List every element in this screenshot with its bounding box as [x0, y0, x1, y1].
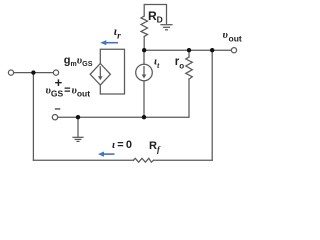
resistor RD — [141, 16, 148, 37]
annotation arrow ir (blue) — [100, 40, 118, 45]
arrow inside it — [142, 67, 147, 79]
svg-text:υGS = υout: υGS = υout — [46, 85, 91, 99]
terminal vout — [231, 48, 236, 53]
current source it — [136, 64, 153, 81]
svg-text:ι = 0: ι = 0 — [112, 139, 132, 151]
svg-text:out: out — [229, 34, 242, 44]
wire: ro bottom to mid wire corner — [188, 79, 190, 117]
svg-text:ro: ro — [175, 56, 184, 71]
wire: top bus — [144, 49, 231, 51]
resistor Rf — [134, 158, 154, 162]
wire: bottom feedback wire left of Rf — [33, 159, 133, 161]
terminal gate — [53, 70, 58, 75]
node dot: it bottom junction — [142, 115, 146, 119]
wire: it branch top — [143, 50, 145, 64]
wire: ro branch top — [188, 50, 190, 57]
ground (top right) — [161, 25, 172, 30]
ground (mid) — [73, 137, 83, 141]
svg-text:gmυGS: gmυGS — [64, 55, 93, 69]
svg-text:Rf: Rf — [149, 140, 161, 154]
wire: RD bottom to node — [143, 37, 145, 51]
node dot: RD/it/bus junction — [142, 48, 146, 52]
svg-text:ιt: ιt — [154, 56, 160, 71]
dependent source loop rectangle — [100, 49, 124, 94]
resistor ro — [186, 57, 193, 79]
wire: top-left row — [14, 72, 54, 74]
wire: mid wire (source node) — [58, 116, 189, 118]
wire: left vertical down — [32, 73, 34, 161]
node dot: ground stub junction — [76, 115, 80, 119]
terminal bottom-left of vgs — [52, 115, 57, 120]
node dot: gate junction — [31, 70, 35, 74]
dependent source gm*vgs diamond — [90, 64, 110, 86]
wire: ground stub — [77, 117, 79, 136]
annotation arrow i=0 (blue) — [98, 152, 115, 157]
terminal top-left input — [8, 70, 13, 75]
node dot: right vertical top junction — [210, 48, 214, 52]
svg-text:ιr: ιr — [114, 24, 121, 41]
wire: RD top to ground — [144, 5, 166, 24]
svg-text:RD: RD — [148, 9, 163, 25]
svg-text:–: – — [55, 103, 61, 115]
wire: bottom feedback wire right of Rf — [154, 159, 213, 161]
node dot: ro top junction — [187, 48, 191, 52]
wire: it branch bottom — [143, 81, 145, 117]
arrow inside diamond — [98, 67, 103, 81]
wire: right feedback vertical — [211, 50, 213, 160]
